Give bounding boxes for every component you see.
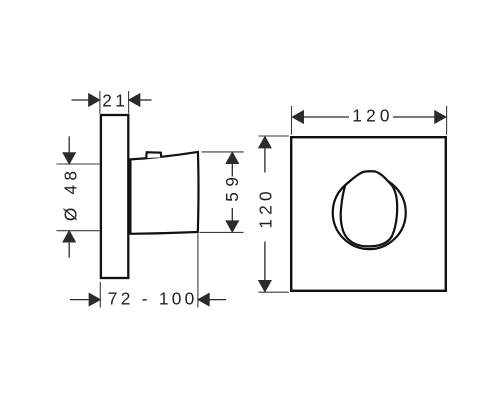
- dim 72-100: left extension line: [99, 282, 101, 308]
- dim 21: right extension line: [128, 91, 130, 114]
- dim Ø48: top tick: [57, 163, 100, 165]
- svg-text:120: 120: [352, 106, 393, 126]
- dim 120 left: bottom arrow: [259, 281, 272, 292]
- dim 120 top: right extension line: [446, 106, 448, 135]
- dim 120 top: left extension line: [291, 106, 293, 135]
- escutcheon plate (side view): [101, 115, 128, 278]
- svg-text:21: 21: [102, 90, 128, 110]
- dim 72-100: right arrow: [209, 299, 226, 301]
- svg-text:72 - 100: 72 - 100: [108, 289, 198, 309]
- dim 59: top arrow: [226, 152, 239, 163]
- svg-text:Ø 48: Ø 48: [60, 167, 80, 221]
- dim 120 left: top extension line: [259, 135, 289, 137]
- dim 21: left extension line: [99, 91, 101, 114]
- dim Ø48: bottom arrow: [68, 242, 70, 257]
- dim Ø48: bottom tick: [57, 230, 100, 232]
- svg-text:120: 120: [255, 187, 275, 228]
- dim 59: bottom arrow: [226, 221, 239, 232]
- knob outer circle arc: [333, 176, 406, 249]
- dim 120 left: bottom extension line: [259, 291, 289, 293]
- escutcheon square plate (front view): [291, 137, 446, 291]
- dim 72-100: right extension line: [197, 234, 199, 308]
- svg-text:59: 59: [222, 171, 242, 201]
- dim 59: top extension line: [202, 151, 244, 153]
- small button tab on handle: [146, 152, 161, 158]
- dim 59: bottom extension line: [200, 231, 244, 233]
- dim 72-100: left arrow: [70, 299, 89, 301]
- dim 21: right arrow: [140, 99, 152, 101]
- dim 120 top: right arrow: [435, 111, 446, 124]
- handle body (side view): [130, 152, 198, 234]
- knob egg shape: [341, 171, 398, 246]
- dim 21: left arrow: [72, 99, 90, 101]
- dim Ø48: top arrow: [68, 136, 70, 152]
- dim 120 top: left arrow: [292, 111, 303, 124]
- dim 120 left: top arrow: [259, 137, 272, 148]
